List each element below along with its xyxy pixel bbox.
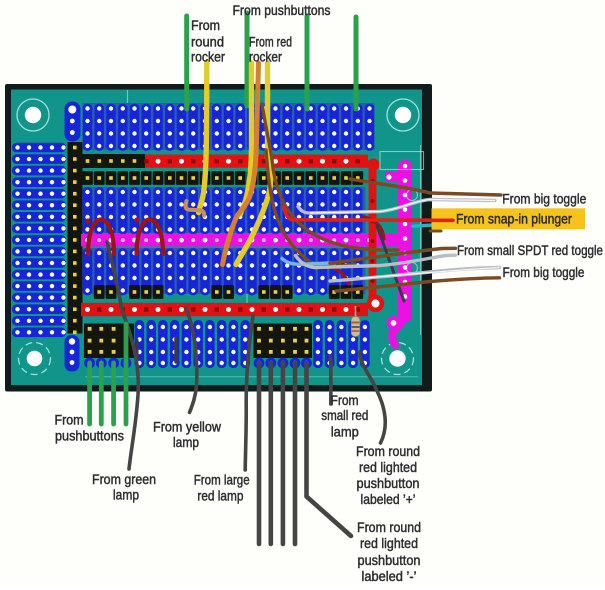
svg-text:pushbuttons: pushbuttons bbox=[55, 428, 124, 444]
bottom vertical tie strips right bbox=[313, 320, 370, 368]
white core of gray wire lower bbox=[360, 268, 500, 279]
svg-text:round: round bbox=[191, 34, 224, 50]
silkscreen vertical line left of column area bbox=[127, 90, 129, 149]
wire green bottom 3 bbox=[111, 363, 116, 424]
wire to minus pushbutton bbox=[307, 363, 352, 536]
wire gray to small SPDT toggle bbox=[296, 255, 456, 267]
red power rail top bbox=[144, 155, 379, 171]
svg-text:rocker: rocker bbox=[249, 49, 282, 65]
silkscreen circle mark lower bbox=[407, 263, 418, 274]
white core of gray wire upper bbox=[310, 200, 495, 214]
silkscreen circle mark upper bbox=[407, 190, 418, 201]
svg-text:From large: From large bbox=[194, 472, 250, 488]
bottom vertical tie strips center bbox=[135, 320, 251, 368]
mounting hole bottom-right bbox=[382, 343, 414, 375]
svg-text:labeled ’+’: labeled ’+’ bbox=[361, 491, 416, 507]
magenta vertical rail right side bbox=[385, 160, 412, 345]
wire brown to small SPDT toggle bbox=[330, 248, 456, 263]
red vertical trace right edge bbox=[369, 160, 377, 300]
svg-text:From yellow: From yellow bbox=[153, 419, 222, 435]
red junction dot left 1 bbox=[85, 218, 90, 223]
bottom hole row under left block bbox=[84, 358, 131, 369]
svg-text:From big toggle: From big toggle bbox=[502, 191, 586, 207]
red pad with hole bottom right bbox=[367, 295, 384, 312]
red power rail bottom bbox=[81, 303, 368, 316]
top row of vertical tie strips bbox=[82, 103, 374, 151]
svg-text:From round: From round bbox=[357, 519, 421, 535]
wire gray vertical 1 bbox=[257, 363, 262, 544]
svg-text:red lighted: red lighted bbox=[360, 535, 418, 551]
wire to yellow lamp bbox=[186, 308, 197, 413]
wire gray to big toggle lower bbox=[330, 268, 500, 282]
wire jumper arc left 1 bbox=[88, 220, 114, 255]
wire yellow right from red rocker bbox=[236, 63, 271, 265]
svg-text:From big toggle: From big toggle bbox=[503, 264, 585, 280]
silkscreen vertical line top center bbox=[246, 90, 248, 103]
red wire tip on yellow box bbox=[432, 219, 453, 223]
wire brown to big toggle upper bbox=[350, 179, 501, 195]
mounting hole top-right bbox=[387, 99, 419, 131]
wire to green lamp bbox=[107, 242, 138, 469]
svg-text:From red: From red bbox=[249, 34, 292, 50]
wire orange from red rocker bbox=[223, 63, 259, 265]
svg-text:red lighted: red lighted bbox=[359, 459, 417, 475]
wire tan jumper near yellow wire end bbox=[186, 201, 205, 216]
wire brown to big toggle lower bbox=[336, 278, 500, 291]
header row of black cells upper bbox=[82, 171, 363, 185]
wire green from round rocker bbox=[184, 16, 189, 109]
svg-text:small red: small red bbox=[321, 407, 368, 423]
silkscreen vertical line lower center bbox=[246, 284, 248, 303]
svg-text:From: From bbox=[55, 412, 84, 428]
left connector block rows of holes bbox=[12, 143, 66, 337]
third row of vertical tie strips bbox=[82, 248, 365, 295]
svg-text:From pushbuttons: From pushbuttons bbox=[233, 2, 331, 18]
wire to large red lamp bbox=[245, 316, 253, 470]
wire green from pushbuttons 1 bbox=[305, 16, 310, 109]
wire red to snap-in plunger bbox=[284, 207, 454, 221]
wire gray vertical 3 bbox=[281, 363, 286, 544]
silkscreen vertical line mid board bbox=[306, 188, 308, 231]
svg-text:pushbutton: pushbutton bbox=[358, 552, 421, 568]
svg-text:From small SPDT red toggle: From small SPDT red toggle bbox=[457, 242, 603, 258]
lower header black cell groups bbox=[94, 285, 363, 299]
wire gray vertical 4 bbox=[293, 363, 298, 544]
svg-text:From snap-in plunger: From snap-in plunger bbox=[456, 211, 572, 227]
wire dark jumper bottom 1 bbox=[174, 338, 177, 362]
svg-text:lamp: lamp bbox=[173, 434, 199, 450]
wire dark red curve right lower bbox=[330, 266, 349, 284]
svg-text:From: From bbox=[331, 392, 359, 408]
silkscreen rectangle right edge bbox=[380, 152, 424, 170]
wire dark red curve right upper bbox=[364, 217, 384, 239]
wire to small red lamp bbox=[329, 356, 333, 404]
svg-text:rocker: rocker bbox=[191, 49, 225, 65]
svg-text:labeled ’-’: labeled ’-’ bbox=[362, 568, 417, 584]
svg-text:lamp: lamp bbox=[331, 424, 359, 440]
yellow highlight box snap-in plunger bbox=[432, 208, 586, 229]
mounting hole top-left bbox=[17, 99, 49, 131]
bottom black header block right bbox=[254, 324, 313, 359]
wire dark diagonal right bbox=[377, 226, 404, 301]
left black header strip with yellow pins bbox=[68, 142, 83, 334]
top-left 3-hole strip bbox=[65, 102, 81, 142]
bottom-left 3-hole strip bbox=[65, 335, 80, 372]
wire green from pushbuttons 2 bbox=[354, 17, 359, 109]
breadboard PCB surface bbox=[11, 90, 422, 386]
second row of vertical tie strips bbox=[82, 187, 365, 234]
magenta power rail bbox=[81, 234, 412, 247]
breadboard PCB outline bbox=[5, 84, 432, 392]
wire green from red rocker bbox=[245, 13, 250, 106]
wire brown sweep lower bbox=[266, 150, 355, 266]
wire gray vertical 2 bbox=[268, 363, 273, 544]
wire to plus pushbutton bbox=[359, 352, 385, 443]
red junction dot left 2 bbox=[134, 217, 139, 222]
svg-text:lamp: lamp bbox=[113, 487, 139, 503]
silkscreen bottom horizontal line bbox=[85, 376, 418, 378]
svg-text:red lamp: red lamp bbox=[197, 488, 243, 504]
wire brown stub under box bbox=[430, 230, 441, 233]
wire green bottom 1 bbox=[87, 363, 92, 424]
mounting hole bottom-left bbox=[19, 343, 51, 375]
svg-text:pushbutton: pushbutton bbox=[357, 475, 420, 491]
svg-text:From round: From round bbox=[356, 443, 420, 459]
power rail row 1 black left cells bbox=[83, 154, 146, 168]
resistor standing near bottom red rail bbox=[351, 306, 359, 337]
wire yellow left from red rocker bbox=[241, 63, 252, 214]
wire dark jumper bottom 2 bbox=[136, 340, 139, 360]
wire jumper arc left 2 bbox=[137, 220, 164, 255]
wire green bottom 4 bbox=[124, 324, 129, 424]
svg-text:From: From bbox=[191, 17, 220, 33]
bottom black header block left bbox=[84, 324, 134, 359]
wire brown sweep upper bbox=[262, 104, 398, 250]
wire cyan stub at right edge bbox=[413, 225, 436, 226]
wire white to big toggle upper bbox=[298, 200, 495, 214]
bottom hole row under right block bbox=[254, 358, 312, 369]
wire yellow from round rocker bbox=[199, 62, 207, 213]
wire light blue elbow SPDT bbox=[282, 259, 332, 265]
silkscreen vertical line right edge bbox=[420, 145, 422, 335]
wire green bottom 2 bbox=[99, 363, 104, 424]
svg-text:From green: From green bbox=[92, 471, 156, 487]
